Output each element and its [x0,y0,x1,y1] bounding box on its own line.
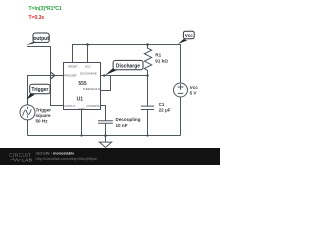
svg-text:T=0.3s: T=0.3s [29,15,45,21]
svg-text:Trigger: Trigger [31,87,48,93]
svg-text:91 kΩ: 91 kΩ [155,58,168,63]
svg-text:555: 555 [78,81,87,87]
svg-text:DISCHARGE: DISCHARGE [80,72,97,76]
svg-text:GND: GND [78,107,84,111]
svg-text:5 V: 5 V [190,91,198,96]
svg-text:OUTPUT: OUTPUT [64,104,76,108]
svg-text:CONTROL: CONTROL [87,104,101,108]
svg-text:22 μF: 22 μF [159,107,171,112]
svg-text:T=ln(3)*R1*C1: T=ln(3)*R1*C1 [29,6,62,12]
svg-text:LAB: LAB [22,158,33,163]
svg-text:TRIGGER: TRIGGER [64,73,77,77]
svg-text:10 nF: 10 nF [116,123,128,128]
svg-text:output: output [33,36,49,42]
svg-text:dschaffe / monostable: dschaffe / monostable [36,151,75,155]
svg-text:Discharge: Discharge [116,63,140,69]
svg-text:50 Hz: 50 Hz [36,119,49,124]
svg-text:Trigger: Trigger [36,107,52,112]
svg-text:Decoupling: Decoupling [116,117,141,122]
svg-text:R1: R1 [155,53,161,58]
svg-text:Vcc: Vcc [190,85,199,90]
svg-text:Vcc: Vcc [185,33,194,38]
svg-text:http://circuitlab.com/c6qm36zq: http://circuitlab.com/c6qm36zq99fpa/ [36,157,99,161]
svg-text:THRESHOLD: THRESHOLD [83,87,100,91]
svg-text:VCC: VCC [85,65,91,69]
svg-text:RESET: RESET [68,65,78,69]
svg-text:square: square [36,113,52,118]
svg-text:C1: C1 [159,102,165,107]
svg-text:U1: U1 [77,96,84,102]
